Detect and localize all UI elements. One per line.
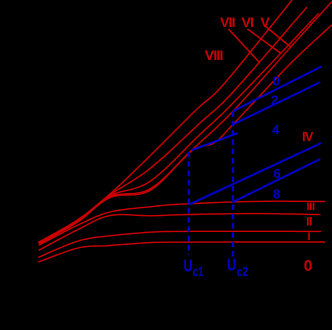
svg-text:4: 4 [272,122,280,137]
svg-text:c2: c2 [237,266,248,279]
leader line for label VI [248,29,282,54]
svg-text:VII: VII [220,14,235,30]
svg-text:0: 0 [304,258,313,275]
svg-text:VI: VI [241,14,253,30]
blue line 0 [233,67,321,112]
blue line 6 [189,143,322,205]
svg-text:V: V [260,14,270,30]
svg-text:U: U [227,256,236,275]
red curve 0 (flat) [38,242,325,262]
svg-text:c1: c1 [193,266,204,279]
svg-text:U: U [184,256,193,275]
blue line 4 [192,133,238,150]
svg-text:IV: IV [302,129,314,144]
svg-text:II: II [306,216,312,228]
red curve I (flat) [38,231,321,257]
dashed vertical at U_c1 [188,152,190,255]
red curve IV [39,25,332,244]
svg-text:8: 8 [273,186,280,201]
svg-text:0: 0 [273,73,280,88]
leader line for label V [265,26,291,48]
dashed vertical at U_c2 [232,112,234,257]
svg-text:6: 6 [273,166,280,181]
red curve VII [38,7,307,243]
svg-text:III: III [306,201,315,213]
leader line for label VII [229,29,260,63]
axis label U_c2 [227,256,248,280]
red curve VIII [38,0,292,243]
red curve III (flat) [39,201,325,245]
svg-text:VIII: VIII [205,47,223,63]
blue line 8 [232,159,320,202]
blue line 2 [233,82,320,124]
svg-text:I: I [307,231,310,243]
red curve II (flat) [39,214,321,251]
red curve V [39,2,332,244]
svg-text:2: 2 [271,93,278,108]
axis label U_c1 [184,256,204,279]
red curve VI [39,14,319,244]
